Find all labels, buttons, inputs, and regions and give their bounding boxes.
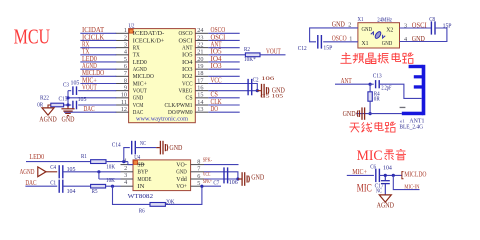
junction ANT node [369, 83, 372, 86]
svg-text:RX: RX [133, 44, 140, 51]
svg-text:IO3: IO3 [182, 66, 193, 73]
U4 inner pin names [137, 162, 187, 191]
wire C1 to R5 [63, 185, 91, 187]
wire OSCO pin1 [323, 41, 358, 43]
wire R4 to GND [369, 84, 371, 92]
resistor R1 [91, 160, 106, 164]
title glyph xian [362, 122, 372, 132]
svg-text:R6: R6 [139, 208, 145, 214]
amplifier U4 body [133, 160, 191, 191]
svg-text:5: 5 [124, 56, 127, 63]
svg-text:SD: SD [137, 162, 144, 169]
wire net MIC+ pin 8 [80, 82, 116, 84]
junction VCC node [256, 89, 259, 92]
svg-text:NC: NC [140, 141, 146, 147]
svg-text:VCC: VCC [182, 80, 193, 87]
junction MIC-IN [392, 174, 395, 177]
U4 pin 5 stub [191, 185, 204, 187]
svg-text:C7: C7 [213, 180, 219, 186]
wire pin 24 [208, 32, 239, 34]
wire R22 to AGND [48, 105, 51, 108]
U2 pin 3 stub [116, 47, 129, 49]
U4 pin 1 stub [121, 164, 134, 166]
svg-text:MIC+: MIC+ [133, 80, 147, 87]
svg-text:MICLDO: MICLDO [133, 73, 154, 80]
svg-text:MODE: MODE [137, 176, 151, 183]
U2 pin 18 stub [195, 75, 208, 77]
wire pin 23 [208, 39, 239, 41]
svg-text:7: 7 [197, 166, 200, 173]
analog ground AGND symbol left [42, 108, 54, 115]
svg-text:VO+: VO+ [176, 183, 187, 190]
junction R6 node [111, 185, 114, 188]
svg-text:10K: 10K [106, 178, 115, 184]
svg-text:2: 2 [348, 22, 351, 29]
svg-text:AGND: AGND [39, 116, 56, 123]
U2 pin 13 stub [195, 111, 208, 113]
wire jog into pin1 [127, 162, 129, 165]
svg-text:C5 105: C5 105 [260, 95, 284, 100]
port bracket MICLDO [402, 172, 404, 179]
capacitor C17 [381, 175, 390, 195]
svg-text:MIC+: MIC+ [82, 77, 97, 84]
wire C14 to GND cap [135, 147, 156, 149]
wire BYP node down to MODE [98, 172, 100, 179]
svg-text:BLE_2.4G: BLE_2.4G [399, 124, 423, 131]
svg-text:C15: C15 [59, 97, 68, 103]
svg-text:GND: GND [169, 145, 182, 152]
wire net TX pin 4 [80, 54, 116, 56]
svg-text:0R: 0R [374, 96, 380, 102]
antenna polarity dash [400, 107, 406, 108]
svg-text:4: 4 [124, 49, 127, 56]
wire pin 10 GND to junction [68, 97, 116, 99]
junction pin11 [66, 103, 69, 106]
wire net VOUT pin 9 [80, 90, 116, 92]
wire pin 14 [208, 104, 239, 106]
wire R5 to U4 pin4 [106, 185, 121, 187]
wire node down to R6 [113, 186, 151, 204]
svg-text:GND: GND [176, 169, 187, 176]
capacitor C13 [376, 80, 380, 88]
wire R1 to U4 pin1 [106, 161, 128, 163]
capacitor C7 [224, 167, 228, 183]
svg-text:8: 8 [197, 158, 200, 165]
wire MIC+ [347, 174, 374, 176]
wire net ICICLK pin 2 [80, 39, 116, 41]
svg-text:9: 9 [124, 84, 127, 91]
U2 pin 1 stub [116, 32, 129, 34]
crystal glyph [371, 31, 385, 40]
svg-text:3: 3 [404, 23, 407, 30]
wire node to C13 [370, 83, 374, 85]
U2 pin 15 stub [195, 97, 208, 99]
antenna ANT1 meander [402, 65, 426, 115]
wire pin7 GND loop [204, 172, 238, 179]
U4 SD overline [137, 163, 144, 165]
U4 pin 7 stub [191, 171, 204, 173]
capacitor C2 [248, 79, 252, 95]
svg-text:OSCO: OSCO [332, 36, 347, 43]
ground symbol at C14 [156, 141, 168, 155]
svg-text:DO/PWM0: DO/PWM0 [168, 109, 193, 116]
svg-text:GND: GND [343, 111, 356, 118]
U2 pin 2 stub [116, 39, 129, 41]
svg-text:Vdd: Vdd [176, 176, 187, 183]
svg-text:IO4: IO4 [182, 59, 193, 66]
U2 pin 20 stub [195, 61, 208, 63]
U2 pin 5 stub [116, 61, 129, 63]
svg-text:IO2: IO2 [182, 73, 193, 80]
U2 pin 9 stub [116, 90, 129, 92]
svg-text:X1: X1 [362, 40, 369, 47]
U4 pin 6 stub [191, 178, 204, 180]
svg-text:MIC: MIC [357, 180, 372, 194]
svg-text:C4: C4 [50, 165, 56, 171]
svg-text:24MHz: 24MHz [377, 17, 392, 24]
U2 pin 6 stub [116, 68, 129, 70]
svg-text:OSCI: OSCI [179, 37, 193, 44]
svg-text:104: 104 [383, 166, 392, 172]
svg-text:VCC: VCC [203, 172, 211, 178]
svg-text:VREG: VREG [179, 87, 193, 94]
title glyph yin [396, 149, 406, 159]
wire R2 to VOUT label [260, 54, 286, 56]
U4 pin 3 stub [121, 178, 134, 180]
wire R6 up to VO+ [165, 186, 202, 204]
junction pin10 [66, 96, 69, 99]
wire pin 22 [208, 47, 239, 49]
svg-text:C14: C14 [112, 142, 121, 148]
svg-text:R1: R1 [81, 154, 87, 160]
svg-text:17: 17 [197, 77, 203, 84]
title glyph tian [349, 123, 359, 132]
U2 pin 19 stub [195, 68, 208, 70]
U2 pin 21 stub [195, 54, 208, 56]
wire pin 15 [208, 97, 239, 99]
title glyph luy [384, 150, 394, 160]
svg-text:GND: GND [362, 26, 373, 33]
svg-text:MICLDO: MICLDO [404, 172, 426, 179]
svg-text:6: 6 [197, 173, 200, 180]
wire to MIC-IN [393, 175, 419, 189]
svg-text:1: 1 [349, 36, 352, 43]
svg-text:2: 2 [124, 165, 127, 172]
svg-text:ANT: ANT [182, 44, 193, 51]
svg-text:MICLDO: MICLDO [82, 70, 104, 77]
wire pin 19 [208, 68, 239, 70]
U2 pin 16 stub [195, 90, 208, 92]
X1 inner pin names [362, 26, 394, 47]
svg-text:CLK/PWM1: CLK/PWM1 [165, 102, 193, 109]
resistor R22 [51, 103, 64, 107]
svg-text:2: 2 [124, 34, 127, 41]
svg-text:AGND: AGND [133, 66, 147, 73]
svg-text:15P: 15P [443, 24, 452, 30]
wire net RX pin 3 [80, 47, 116, 49]
svg-text:U2: U2 [129, 23, 135, 30]
U2 pin 24 stub [195, 32, 208, 34]
U2 pin 22 stub [195, 47, 208, 49]
svg-text:VOUT: VOUT [133, 87, 147, 94]
wire pin 13 [208, 111, 239, 113]
svg-text:ICEDAT/D-: ICEDAT/D- [133, 30, 165, 37]
svg-text:3: 3 [124, 172, 127, 179]
svg-text:OSCO: OSCO [179, 30, 193, 37]
analog ground AGND symbol mic [379, 195, 391, 202]
wire VCC pin17 to node [208, 83, 257, 90]
svg-text:5: 5 [197, 180, 200, 187]
svg-text:NC: NC [376, 188, 382, 194]
svg-text:X1: X1 [358, 16, 364, 23]
svg-text:CS: CS [186, 95, 193, 102]
title glyph zhen [378, 53, 389, 63]
U2 pin 10 stub [116, 97, 129, 99]
resistor R5 [91, 184, 106, 188]
svg-text:IN: IN [137, 183, 144, 190]
capacitor C15 [73, 101, 77, 110]
svg-text:TX: TX [82, 49, 89, 56]
svg-text:GND: GND [412, 36, 425, 43]
capacitor C6 [376, 169, 380, 182]
svg-text:8: 8 [124, 77, 127, 84]
svg-text:U4: U4 [134, 154, 141, 161]
resistor R4 [368, 92, 372, 101]
svg-text:15P: 15P [323, 45, 332, 51]
capacitor C8 [431, 21, 435, 34]
wire VO- SPK- [204, 164, 239, 166]
svg-text:GND: GND [382, 40, 393, 47]
wire C13 to antenna feed [379, 84, 421, 98]
svg-text:10K: 10K [106, 164, 115, 170]
wire Vdd to node [204, 178, 238, 180]
svg-text:18: 18 [197, 70, 203, 77]
resistor R2 [245, 53, 260, 57]
svg-text:15: 15 [197, 92, 203, 99]
U2 pin 17 stub [195, 82, 208, 84]
svg-text:C2: C2 [253, 77, 259, 83]
svg-text:104: 104 [67, 189, 76, 195]
svg-text:ICIDAT: ICIDAT [82, 27, 105, 34]
svg-text:SPK-: SPK- [203, 158, 212, 164]
svg-text:105: 105 [71, 80, 80, 86]
ground symbol at C7 [238, 172, 250, 186]
svg-text:24: 24 [197, 27, 203, 34]
svg-text:MCU: MCU [14, 25, 51, 49]
svg-text:22: 22 [197, 41, 203, 48]
svg-text:VOUT: VOUT [82, 85, 97, 92]
svg-text:C3: C3 [63, 82, 69, 88]
capacitor C12 [318, 35, 322, 49]
wire VOUT to C3 [68, 90, 71, 92]
svg-text:GND: GND [332, 22, 345, 29]
MCU U2 body [129, 29, 196, 123]
wire AGND to C4 [46, 171, 57, 173]
svg-text:WT8082: WT8082 [128, 193, 154, 200]
wire DAC to C1 [25, 185, 57, 187]
wire ANT [335, 83, 370, 85]
svg-text:C13: C13 [373, 74, 382, 80]
svg-text:ICICLK: ICICLK [82, 34, 104, 41]
svg-text:R5: R5 [92, 189, 98, 195]
svg-text:12: 12 [121, 106, 127, 113]
crystal X1 body [358, 23, 400, 48]
svg-text:VOUT: VOUT [266, 48, 281, 55]
svg-text:21: 21 [197, 49, 203, 56]
analog ground triangle (right-pointing) [38, 167, 46, 177]
svg-text:AGND: AGND [377, 202, 394, 209]
svg-text:X2: X2 [386, 27, 393, 34]
junction VCC U4 node [236, 177, 239, 180]
wire C4 to U4 pin2 [63, 171, 121, 173]
svg-text:R2: R2 [244, 47, 250, 53]
svg-text:SPK+: SPK+ [203, 179, 212, 185]
U2 pin 12 stub [116, 111, 129, 113]
wire C6 to MICLDO [379, 174, 401, 176]
svg-text:4: 4 [404, 36, 407, 43]
U2 pin 11 stub [116, 104, 129, 106]
resistor R6 [150, 203, 165, 207]
svg-text:4: 4 [124, 179, 127, 186]
wire VCM row [64, 104, 72, 106]
svg-text:3: 3 [124, 41, 127, 48]
svg-text:ICECLK/D+: ICECLK/D+ [133, 37, 165, 44]
wire LED0 to R1 [26, 161, 91, 163]
wire net AGND pin 6 [80, 68, 116, 70]
U2 pin 14 stub [195, 104, 208, 106]
svg-text:TX: TX [133, 52, 140, 59]
U2 inner pin names [133, 30, 193, 116]
svg-text:IO5: IO5 [182, 52, 193, 59]
svg-text:11: 11 [121, 99, 127, 106]
ground symbol at C5 [257, 84, 269, 98]
wire vertical junction to GND [67, 91, 69, 107]
U2 pin 8 stub [116, 82, 129, 84]
junction BYP-MODE [97, 170, 100, 173]
svg-text:7: 7 [124, 70, 127, 77]
svg-text:BYP: BYP [137, 169, 148, 176]
svg-text:1: 1 [124, 27, 127, 34]
capacitor C3 [73, 86, 77, 95]
title glyph dian [392, 53, 400, 62]
wire net MICLDO pin 7 [80, 75, 116, 77]
junction C14 node [122, 160, 125, 163]
svg-text:DAC: DAC [84, 106, 95, 113]
title glyph zhu [340, 53, 351, 64]
title glyph lu [402, 53, 413, 63]
svg-text:RX: RX [82, 42, 89, 49]
svg-text:AGND: AGND [20, 169, 35, 176]
svg-text:LED0: LED0 [133, 59, 147, 66]
wire X1 pin2 GND loop [310, 28, 358, 42]
capacitor C14 [132, 141, 136, 155]
junction C17 [384, 174, 387, 177]
svg-text:106: 106 [229, 180, 238, 186]
wire pin 20 [208, 61, 239, 63]
svg-text:23: 23 [197, 34, 203, 41]
svg-text:105: 105 [78, 97, 87, 103]
wire net DAC pin 12 [64, 111, 116, 113]
svg-text:13: 13 [197, 106, 203, 113]
svg-text:e1: e1 [400, 118, 405, 123]
junction GND node [369, 112, 372, 115]
U2 pin 23 stub [195, 39, 208, 41]
svg-text:14: 14 [197, 99, 203, 106]
junction VO+ [200, 185, 203, 188]
svg-text:10K*: 10K* [244, 57, 256, 63]
wire net LED0 pin 5 [80, 61, 116, 63]
svg-text:AGND: AGND [82, 63, 97, 70]
svg-text:106: 106 [261, 77, 275, 82]
ground GND symbol (earth) [61, 106, 74, 115]
title glyph dian2 [375, 122, 383, 131]
wire VO+ SPK+ [204, 185, 221, 187]
svg-text:VO-: VO- [176, 162, 187, 169]
svg-text:www.waytronic.com: www.waytronic.com [136, 116, 188, 123]
title glyph jing [366, 53, 376, 63]
U2 pin 7 stub [116, 75, 129, 77]
wire C8 to pin4 GND [400, 28, 447, 42]
title glyph lu2 [385, 122, 396, 132]
wire net ICIDAT pin 1 [80, 32, 116, 34]
svg-text:6: 6 [124, 63, 127, 70]
svg-text:C8: C8 [429, 17, 435, 23]
capacitor C4 [59, 165, 63, 178]
U4 pin 2 stub [121, 171, 134, 173]
capacitor C1 [59, 180, 63, 193]
svg-text:C12: C12 [298, 46, 307, 52]
svg-text:MIC-IN: MIC-IN [404, 184, 419, 191]
svg-text:20: 20 [197, 56, 203, 63]
wire node to C14 [124, 148, 130, 162]
svg-text:GND: GND [251, 174, 264, 181]
U4 pin 4 stub [121, 185, 134, 187]
svg-text:GND: GND [133, 95, 144, 102]
svg-text:16: 16 [197, 84, 203, 91]
svg-text:GND: GND [62, 117, 75, 124]
U4 pin 8 stub [191, 164, 204, 166]
wire pin 18 [208, 75, 239, 77]
wire pin16 to node [208, 90, 257, 92]
svg-text:R22: R22 [40, 96, 49, 102]
svg-text:LED0: LED0 [82, 56, 97, 63]
svg-text:DAC: DAC [133, 109, 144, 116]
svg-text:C6: C6 [370, 164, 376, 170]
U2 pin 4 stub [116, 54, 129, 56]
svg-text:GND: GND [272, 88, 285, 95]
svg-text:LED0: LED0 [29, 154, 44, 161]
wire OSCI pin3 [400, 27, 432, 29]
svg-text:19: 19 [197, 63, 203, 70]
svg-text:OSCI: OSCI [412, 23, 427, 30]
svg-text:C1: C1 [50, 180, 56, 186]
wire GND symbol to node and antenna [356, 113, 402, 115]
svg-text:2.2pF: 2.2pF [381, 86, 392, 92]
title glyph pin [353, 53, 364, 63]
svg-text:10: 10 [121, 92, 127, 99]
ground symbol antenna (sideways) [357, 107, 364, 119]
svg-text:MIC: MIC [357, 148, 383, 164]
svg-text:VCM: VCM [133, 102, 144, 109]
wire IO5 to R2 [208, 54, 245, 56]
